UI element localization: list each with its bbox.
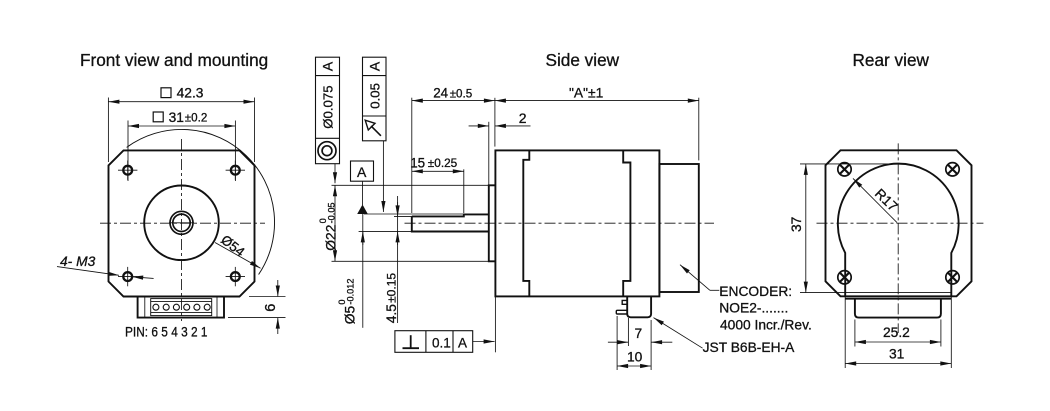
svg-text:NOE2-.......: NOE2-....... bbox=[719, 300, 788, 315]
rear screw bottom-left bbox=[838, 271, 851, 284]
rear view vertical center line bbox=[897, 143, 899, 333]
svg-text:±0.15: ±0.15 bbox=[384, 273, 398, 303]
dimension 31: dimension line bbox=[845, 363, 951, 365]
perpendicularity feature control frame bbox=[395, 331, 495, 353]
leader from concentricity frame bbox=[334, 164, 336, 184]
R17 leader bbox=[853, 178, 897, 222]
concentricity feature control frame bbox=[316, 57, 340, 164]
svg-text:A: A bbox=[357, 164, 367, 180]
side connector upper tab bbox=[622, 300, 627, 304]
svg-text:±0.25: ±0.25 bbox=[428, 156, 458, 170]
svg-text:ENCODER:: ENCODER: bbox=[719, 284, 792, 299]
dimension 42.3: dimension line bbox=[108, 101, 254, 103]
rear body outline (square with chamfers) bbox=[826, 150, 972, 296]
svg-text:24: 24 bbox=[433, 86, 448, 101]
dim text 42.3 bbox=[161, 86, 204, 101]
svg-text:37: 37 bbox=[789, 217, 804, 232]
dimension 6: extension lines bbox=[249, 296, 286, 298]
leader Ø54 bbox=[215, 243, 261, 269]
dimension 31: extension lines bbox=[127, 121, 129, 182]
front connector inner lines bbox=[144, 297, 146, 318]
shaft circle Ø5 bbox=[173, 214, 190, 231]
rear screw top-left bbox=[838, 163, 851, 176]
svg-text:0.1: 0.1 bbox=[432, 335, 451, 350]
circular runout feature control frame bbox=[363, 57, 387, 212]
dimension 24±0.5 line bbox=[412, 100, 495, 102]
rear view horizontal center line bbox=[817, 222, 984, 224]
svg-text:42.3: 42.3 bbox=[177, 86, 204, 101]
rear screw bottom-right bbox=[946, 271, 959, 284]
mounting hole top-right bbox=[226, 161, 245, 180]
dimension 31: dimension line bbox=[128, 125, 235, 127]
perpendicularity symbol bbox=[403, 347, 420, 349]
runout leader bbox=[382, 141, 384, 212]
datum A leader line bbox=[362, 181, 364, 205]
dimension 25.2: extension lines bbox=[854, 320, 856, 347]
svg-text:A: A bbox=[320, 61, 336, 71]
4.5 top arrow bbox=[397, 202, 399, 216]
side connector lower tab bbox=[616, 310, 627, 314]
rear screw top-right bbox=[946, 163, 959, 176]
shaft flat edge bbox=[412, 214, 489, 216]
front body outline (square with chamfers) bbox=[109, 150, 255, 296]
dimension 31: extension lines bbox=[844, 296, 846, 368]
dimension 42.3: extension lines bbox=[107, 98, 109, 163]
shaft outline bbox=[412, 216, 489, 231]
svg-text:0.05: 0.05 bbox=[367, 83, 382, 109]
shaft end extension line bbox=[411, 98, 413, 213]
perpendicularity leader bbox=[473, 341, 495, 343]
svg-text:10: 10 bbox=[627, 350, 643, 365]
dimension 2 arrows bbox=[469, 125, 489, 127]
dim text Ø5 0/-0.012 (rotated) bbox=[337, 279, 357, 325]
datum A box bbox=[351, 161, 374, 181]
Ø22 extension lines bbox=[332, 184, 489, 186]
front connector inner rect bbox=[151, 299, 212, 316]
runout symbol arrow bbox=[371, 126, 381, 136]
4.5 bottom arrow bbox=[397, 231, 399, 245]
concentricity symbol bbox=[318, 142, 336, 160]
dim text Ø22 0/-0.05 (rotated) bbox=[318, 202, 338, 250]
rear end-cap contour bbox=[623, 150, 630, 296]
encoder housing bbox=[659, 164, 698, 292]
dim text 31 ±0.2 bbox=[153, 110, 207, 125]
dim text 4.5±0.15 (rotated) bbox=[384, 273, 399, 324]
mounting hole top-left bbox=[118, 161, 137, 180]
svg-text:A: A bbox=[366, 61, 382, 71]
svg-text:31: 31 bbox=[169, 110, 184, 125]
side view center line (shaft axis) bbox=[405, 222, 715, 224]
svg-text:7: 7 bbox=[635, 326, 643, 341]
front end-cap contour bbox=[523, 150, 529, 296]
Ø5 dimension line bbox=[362, 214, 364, 328]
side connector body bbox=[627, 296, 651, 317]
shaft bottom extension line bbox=[359, 230, 412, 232]
dimension 37: extension lines bbox=[800, 163, 899, 165]
encoder housing rear profile (R17 dome) bbox=[838, 164, 959, 297]
svg-text:Ø0.075: Ø0.075 bbox=[321, 85, 336, 128]
svg-text:2: 2 bbox=[519, 110, 527, 126]
pilot boss Ø22 bbox=[489, 185, 496, 261]
svg-text:Front view and mounting: Front view and mounting bbox=[80, 50, 268, 70]
motor body outline bbox=[495, 150, 659, 296]
dimension 7 bbox=[608, 318, 672, 370]
shaft crosshair bbox=[169, 222, 194, 224]
svg-text:PIN: 6 5 4 3 2 1: PIN: 6 5 4 3 2 1 bbox=[125, 324, 208, 339]
svg-text:Ø5: Ø5 bbox=[343, 305, 358, 324]
shaft boss circle bbox=[170, 211, 193, 234]
front connector outer block bbox=[138, 297, 224, 318]
dimension "A"±1 line bbox=[495, 100, 699, 102]
encoder rear extension line bbox=[698, 98, 700, 161]
svg-text:31: 31 bbox=[889, 346, 904, 361]
dimension 6: arrows bbox=[277, 280, 279, 297]
mounting face extension line below body bbox=[494, 296, 496, 352]
svg-text:4- M3: 4- M3 bbox=[60, 254, 96, 269]
svg-text:±0.5: ±0.5 bbox=[450, 87, 472, 100]
svg-text:6: 6 bbox=[263, 304, 279, 312]
4.5 dimension line bbox=[397, 196, 399, 323]
svg-text:4.5: 4.5 bbox=[384, 304, 399, 324]
pilot circle (motor face big circle) bbox=[144, 186, 219, 261]
shaft flat extension line bbox=[394, 215, 412, 217]
mounting hole bottom-right bbox=[226, 267, 245, 286]
Ø22 dimension line with arrows bbox=[334, 185, 336, 261]
dimension 37: dimension line bbox=[805, 164, 807, 293]
mounting hole bottom-left bbox=[118, 267, 137, 286]
svg-text:±0.2: ±0.2 bbox=[185, 111, 207, 124]
encoder leader bbox=[680, 265, 719, 291]
datum A triangle bbox=[357, 205, 368, 215]
flat end extension line bbox=[463, 169, 465, 213]
dimension 25.2: dimension line bbox=[855, 341, 941, 343]
svg-text:"A"±1: "A"±1 bbox=[569, 85, 603, 100]
rear connector block bbox=[855, 299, 941, 318]
svg-text:JST B6B-EH-A: JST B6B-EH-A bbox=[703, 340, 796, 355]
dimension 15±0.25 line bbox=[412, 170, 464, 172]
svg-text:Rear view: Rear view bbox=[853, 50, 930, 70]
svg-text:25.2: 25.2 bbox=[883, 325, 910, 340]
shaft full-diameter silhouette line bbox=[364, 213, 463, 215]
svg-text:Side view: Side view bbox=[546, 50, 620, 70]
Ø5 bottom arrow bbox=[362, 231, 364, 245]
rear connector plate line bbox=[845, 298, 951, 300]
JST leader bbox=[654, 318, 703, 349]
mounting face extension line above body bbox=[494, 98, 496, 147]
front view vertical center line bbox=[181, 139, 183, 321]
svg-text:15: 15 bbox=[410, 155, 425, 170]
svg-text:4000 Incr./Rev.: 4000 Incr./Rev. bbox=[720, 317, 812, 332]
svg-text:A: A bbox=[458, 335, 467, 350]
dimension 10 bbox=[617, 316, 651, 370]
svg-text:Ø22: Ø22 bbox=[324, 225, 339, 251]
connector pin circles bbox=[153, 304, 210, 310]
boss face extension line bbox=[488, 122, 490, 186]
svg-text:-0.05: -0.05 bbox=[327, 202, 337, 223]
Ø54 swing arc bbox=[127, 129, 275, 274]
svg-text:-0.012: -0.012 bbox=[346, 279, 356, 305]
leader 4-M3 bbox=[57, 267, 119, 276]
front view horizontal center line bbox=[100, 222, 265, 224]
